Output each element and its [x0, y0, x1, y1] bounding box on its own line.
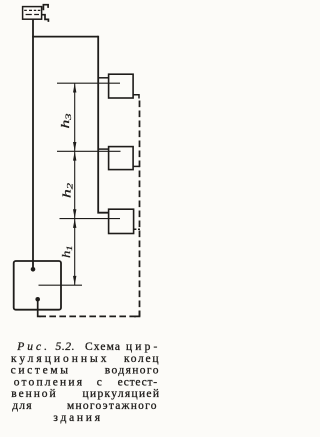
svg-text:естест-: естест-	[118, 376, 158, 388]
svg-text:Рис.: Рис.	[16, 341, 47, 353]
wire: return corner (solid piece)	[134, 311, 140, 317]
extension line: radiator 1 centre level	[57, 82, 120, 84]
wire: dashed return riser	[139, 101, 141, 317]
dimension line h3/h2/h1	[74, 83, 76, 285]
wire: radiator 1 outlet corner	[133, 95, 139, 99]
wire: supply main horizontal	[32, 36, 98, 38]
svg-text:колец: колец	[124, 353, 159, 365]
extension line: radiator 3 centre level	[60, 218, 121, 220]
wire: radiator 2 outlet stub	[133, 165, 140, 167]
arrowheads at level 1	[73, 209, 76, 228]
expansion tank	[23, 7, 42, 20]
svg-text:системы: системы	[11, 365, 69, 377]
wire: supply stub to radiator 2	[98, 148, 108, 150]
wire: radiator 3 outlet stub (dashed)	[134, 228, 140, 230]
svg-text:с: с	[97, 376, 102, 388]
boiler	[14, 261, 61, 310]
svg-text:здания: здания	[53, 412, 100, 424]
tank water-level dashes	[24, 10, 40, 14]
svg-text:h3: h3	[58, 114, 73, 129]
svg-text:h2: h2	[60, 182, 75, 198]
svg-text:многоэтажного: многоэтажного	[67, 400, 157, 412]
svg-text:Схема: Схема	[85, 341, 120, 353]
arrowhead up at h3 top	[73, 83, 76, 92]
node: boiler return connection dot	[35, 297, 40, 302]
svg-text:цир-: цир-	[126, 341, 157, 353]
radiator 2 (middle floor)	[109, 147, 134, 170]
extension line: boiler centre level	[39, 284, 83, 286]
svg-text:венной: венной	[11, 388, 55, 400]
svg-text:отопления: отопления	[14, 376, 83, 388]
arrowhead down at boiler level	[73, 276, 76, 285]
svg-text:куляционных: куляционных	[11, 353, 107, 365]
svg-text:h1: h1	[59, 246, 74, 259]
svg-text:водяного: водяного	[105, 365, 159, 377]
extension line: radiator 2 centre level	[57, 150, 121, 152]
svg-text:циркуляцией: циркуляцией	[83, 388, 160, 400]
radiator 3 (ground floor)	[109, 209, 134, 233]
arrowheads at level 2	[73, 142, 76, 161]
wire: supply stub to radiator 1	[98, 77, 108, 79]
node: boiler supply connection dot	[31, 267, 36, 272]
caption	[11, 341, 159, 424]
svg-text:для: для	[12, 400, 32, 412]
radiator 1 (top floor)	[109, 74, 134, 98]
wire: riser down to radiator 3	[98, 36, 108, 213]
wire: boiler return stub	[38, 299, 41, 316]
wire: dashed return main at bottom	[40, 315, 137, 317]
svg-text:5.2.: 5.2.	[56, 341, 75, 353]
tank connection pipe stub (bottom)	[42, 15, 49, 22]
tank overflow pipe stub (top)	[43, 5, 48, 11]
wire: main vertical pipe from tank to boiler	[32, 19, 34, 268]
